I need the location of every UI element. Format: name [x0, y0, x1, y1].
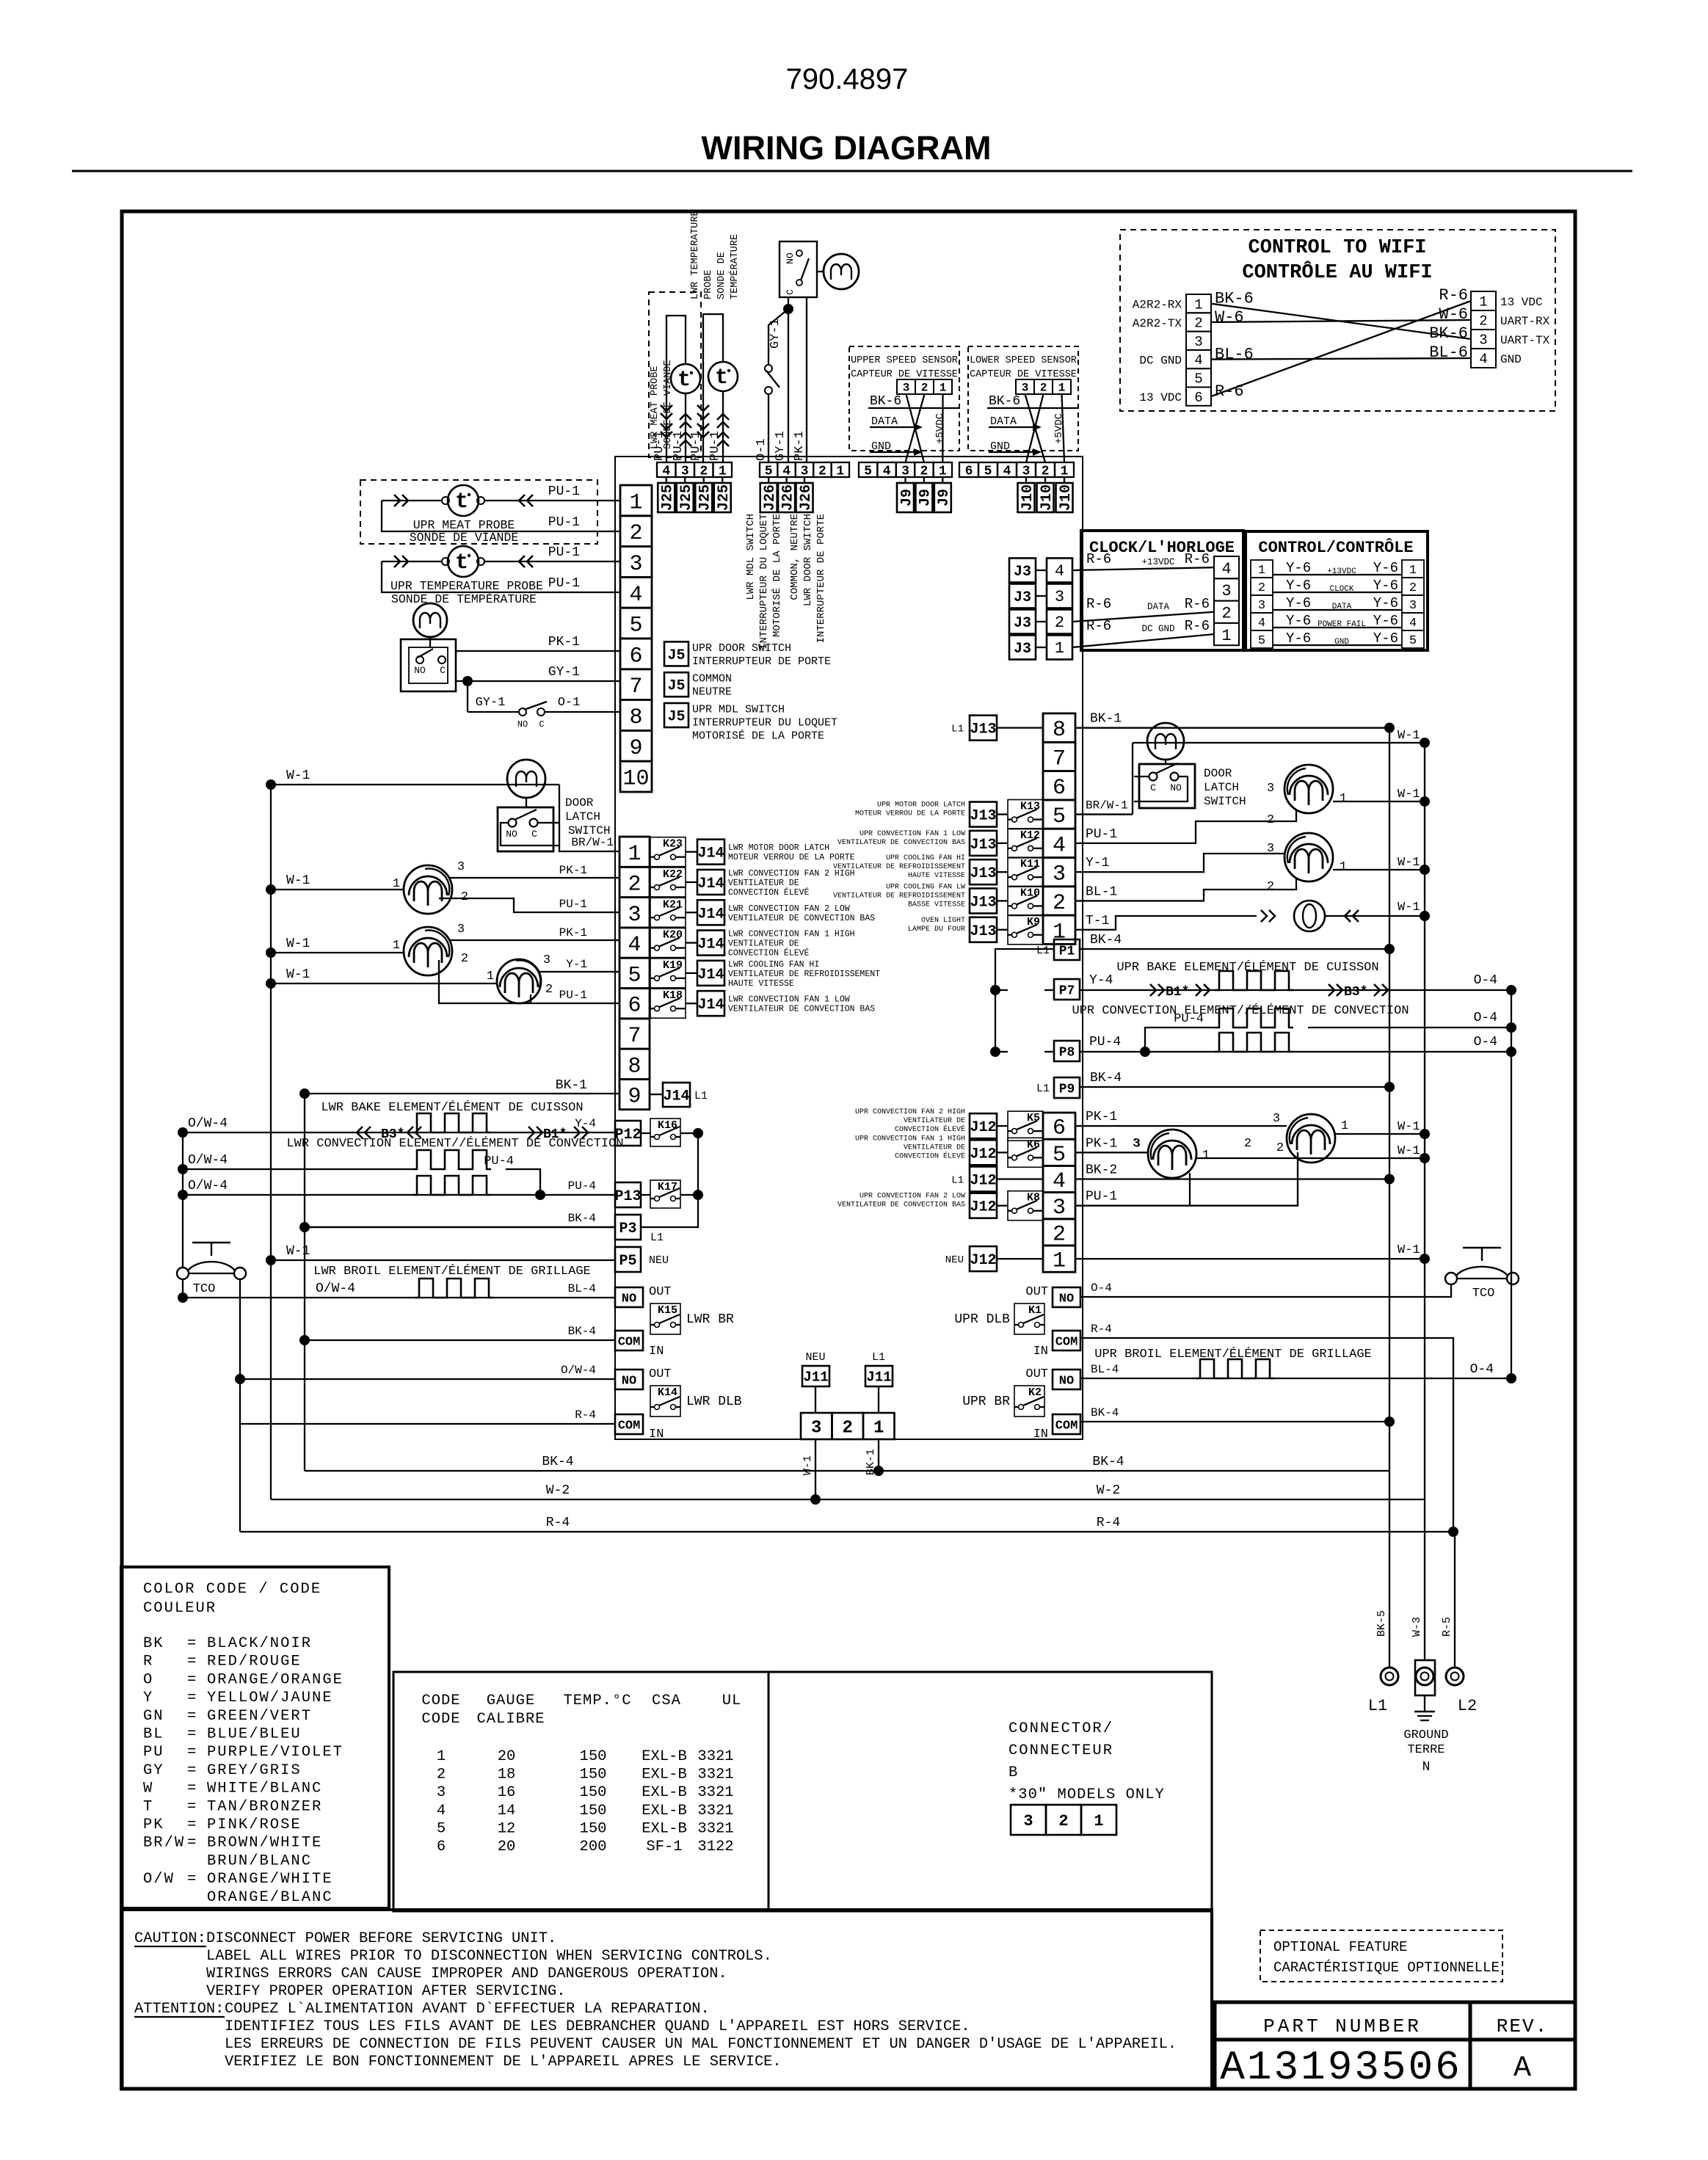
svg-text:PU-1: PU-1 [689, 431, 703, 461]
oven light [1075, 916, 1257, 930]
svg-text:Y-6: Y-6 [1286, 595, 1311, 611]
svg-text:O/W-4: O/W-4 [188, 1179, 228, 1193]
svg-text:K14: K14 [658, 1386, 677, 1399]
svg-text:1: 1 [628, 842, 641, 867]
svg-text:Y-1: Y-1 [566, 958, 587, 971]
svg-text:N: N [1422, 1760, 1431, 1775]
svg-text:BL-6: BL-6 [1215, 346, 1254, 364]
svg-text:UPR CONVECTION ELEMENT//ÉLÉMEN: UPR CONVECTION ELEMENT//ÉLÉMENT DE CONVE… [1072, 1003, 1409, 1018]
wire BR/W-1 J13 row5 to latch [1075, 813, 1133, 815]
svg-text:COM: COM [618, 1419, 641, 1433]
J14 row 9 L1 [663, 1083, 690, 1107]
svg-text:MOTORISÉ DE LA PORTE: MOTORISÉ DE LA PORTE [692, 730, 824, 743]
svg-text:J10: J10 [1058, 484, 1075, 511]
wifi crossover wires [1211, 304, 1471, 339]
O-1 door switch contacts [765, 365, 772, 372]
svg-text:4: 4 [629, 583, 642, 608]
svg-text:1: 1 [1194, 297, 1202, 313]
connector strip J26 pins 5-1 [760, 462, 777, 477]
svg-text:K17: K17 [658, 1181, 677, 1193]
svg-text:PU-1: PU-1 [559, 989, 587, 1002]
svg-text:MOTEUR VERROU DE LA PORTE: MOTEUR VERROU DE LA PORTE [728, 853, 855, 862]
svg-text:PART NUMBER: PART NUMBER [1263, 2015, 1422, 2037]
svg-text:3: 3 [801, 464, 809, 479]
svg-text:BR/W-1: BR/W-1 [1086, 799, 1128, 812]
svg-text:4: 4 [437, 1803, 446, 1819]
svg-text:16: 16 [498, 1784, 516, 1801]
svg-text:PU-1: PU-1 [559, 898, 587, 911]
svg-text:BK-4: BK-4 [542, 1455, 573, 1469]
svg-text:LOWER SPEED SENSOR: LOWER SPEED SENSOR [970, 355, 1077, 366]
svg-text:4: 4 [628, 933, 641, 958]
svg-text:PU-4: PU-4 [1174, 1012, 1204, 1026]
svg-text:DC GND: DC GND [1139, 354, 1182, 368]
svg-text:R-6: R-6 [1086, 618, 1111, 634]
svg-text:6: 6 [437, 1839, 446, 1855]
wire BL-4 NO2 broil element O-4 [1080, 1378, 1511, 1379]
svg-text:TCO: TCO [193, 1282, 216, 1296]
svg-text:3: 3 [1194, 334, 1202, 350]
svg-text:2: 2 [461, 952, 468, 966]
CONTROL/CONTRÔLE box [1246, 531, 1428, 650]
svg-text:R: R [143, 1654, 153, 1670]
svg-text:5: 5 [1194, 371, 1202, 388]
svg-text:OUT: OUT [649, 1285, 672, 1299]
svg-text:O/W-4: O/W-4 [316, 1281, 355, 1296]
wire BK-1 row9 [305, 1093, 619, 1094]
svg-text:A2R2-RX: A2R2-RX [1133, 299, 1182, 312]
svg-text:t: t [715, 366, 728, 390]
svg-text:TEMP.°C: TEMP.°C [563, 1692, 631, 1709]
svg-text:PU-1: PU-1 [548, 545, 580, 560]
svg-text:NO: NO [517, 719, 528, 730]
svg-text:DATA: DATA [871, 415, 898, 428]
svg-text:LWR CONVECTION ELEMENT//ÉLÉMEN: LWR CONVECTION ELEMENT//ÉLÉMENT DE CONVE… [286, 1136, 623, 1151]
svg-text:2: 2 [461, 890, 468, 904]
svg-text:GND: GND [990, 440, 1010, 453]
svg-text:5: 5 [765, 464, 773, 479]
svg-text:4: 4 [782, 464, 791, 479]
right vertical W bus [1424, 743, 1425, 1499]
svg-text:LWR CONVECTION FAN 2 HIGH: LWR CONVECTION FAN 2 HIGH [728, 869, 855, 879]
svg-text:1: 1 [1061, 464, 1069, 479]
svg-text:=: = [187, 1654, 196, 1670]
svg-text:2: 2 [1040, 382, 1047, 395]
J12 row 1 NEU [970, 1246, 997, 1271]
svg-text:ATTENTION:: ATTENTION: [134, 2001, 224, 2018]
wire BK-4 COM [305, 1339, 615, 1341]
svg-text:VENTILATEUR DE CONVECTION BAS: VENTILATEUR DE CONVECTION BAS [728, 1005, 875, 1014]
svg-text:CONTROL/CONTRÔLE: CONTROL/CONTRÔLE [1258, 538, 1413, 557]
connector J10 pin headers [1025, 477, 1027, 483]
svg-text:5: 5 [629, 614, 642, 639]
svg-text:3: 3 [1053, 1196, 1066, 1221]
wire gauge table box [393, 1672, 768, 1911]
svg-text:CAUTION:: CAUTION: [134, 1930, 206, 1947]
svg-text:3321: 3321 [697, 1820, 733, 1837]
connector B pins 3-1 [1011, 1805, 1046, 1835]
svg-text:PU-1: PU-1 [1086, 827, 1117, 842]
J12 row 4 L1 [970, 1167, 997, 1192]
svg-text:150: 150 [580, 1784, 607, 1801]
svg-text:4: 4 [1479, 352, 1487, 368]
J13 connector row with relay K12 [970, 831, 997, 856]
svg-text:INTERRUPTEUR DE PORTE: INTERRUPTEUR DE PORTE [692, 655, 831, 668]
J14 connector row with relay K19 [650, 959, 686, 988]
title rule [72, 170, 1632, 172]
wire motor7 pin3 Y-1 row5 [538, 971, 619, 972]
wire P9 BK-4 [1080, 1086, 1389, 1088]
svg-text:1: 1 [629, 490, 642, 515]
wire BK-4 COM2 [1080, 1421, 1389, 1422]
svg-text:POWER FAIL: POWER FAIL [1318, 620, 1366, 629]
wire motor5 pin3 to pin2 PK-1 [449, 877, 619, 879]
svg-text:4: 4 [1194, 352, 1202, 368]
svg-text:BR/W-1: BR/W-1 [571, 836, 614, 849]
svg-text:J3: J3 [1014, 564, 1031, 581]
svg-text:TCO: TCO [1472, 1287, 1495, 1301]
svg-text:BLACK/NOIR: BLACK/NOIR [207, 1635, 312, 1652]
svg-text:IN: IN [1033, 1428, 1048, 1441]
svg-text:1: 1 [1058, 382, 1066, 395]
svg-text:NEU: NEU [805, 1351, 825, 1364]
svg-text:COMMON, NEUTRE: COMMON, NEUTRE [789, 514, 801, 600]
svg-text:COUPEZ L`ALIMENTATION AVANT D`: COUPEZ L`ALIMENTATION AVANT D`EFFECTUER … [225, 2001, 710, 2018]
svg-text:NO: NO [414, 665, 426, 676]
svg-text:=: = [187, 1635, 196, 1652]
svg-text:PK-1: PK-1 [548, 635, 580, 650]
svg-text:J11: J11 [803, 1370, 828, 1386]
J13 connector row with relay K9 [970, 917, 997, 942]
svg-text:LABEL ALL WIRES PRIOR TO DISCO: LABEL ALL WIRES PRIOR TO DISCONNECTION W… [206, 1948, 772, 1965]
svg-text:O/W-4: O/W-4 [188, 1153, 228, 1168]
svg-text:C: C [440, 665, 446, 676]
svg-text:OUT: OUT [1025, 1285, 1048, 1299]
svg-text:3: 3 [1053, 862, 1066, 887]
svg-text:CONTRÔLE AU WIFI: CONTRÔLE AU WIFI [1242, 260, 1432, 284]
svg-text:R-6: R-6 [1185, 618, 1210, 634]
svg-text:EXL-B: EXL-B [642, 1767, 687, 1783]
svg-text:BK-4: BK-4 [1092, 1455, 1124, 1469]
svg-text:=: = [187, 1871, 196, 1888]
svg-text:=: = [187, 1817, 196, 1833]
svg-text:1: 1 [940, 382, 947, 395]
svg-text:J12: J12 [970, 1199, 996, 1216]
wire O-1 to J26-5 [768, 394, 769, 462]
svg-text:K18: K18 [663, 989, 683, 1002]
svg-text:J14: J14 [697, 967, 724, 983]
wire pin2 PU-1 [382, 501, 620, 531]
wire W-1 motor5 pin1 [271, 889, 404, 890]
svg-text:1: 1 [1055, 639, 1064, 658]
relay K14 LWR DLB [650, 1386, 680, 1417]
wire O/W-4 convection element lower PU-4 to P13 [183, 1194, 615, 1196]
optional feature dashed box [1260, 1930, 1502, 1982]
left O/W rail [182, 1132, 183, 1268]
wire BK-1 from 1 to BK-4 bus [878, 1439, 879, 1471]
svg-text:WIRINGS ERRORS CAN CAUSE IMPRO: WIRINGS ERRORS CAN CAUSE IMPROPER AND DA… [206, 1966, 727, 1982]
svg-text:3321: 3321 [697, 1803, 733, 1819]
svg-text:3: 3 [903, 382, 910, 395]
connector P12 [615, 1121, 641, 1146]
svg-text:5: 5 [864, 464, 872, 479]
wire BK-2 row4 [1075, 1178, 1389, 1179]
svg-text:4: 4 [1003, 464, 1011, 479]
svg-text:J14: J14 [697, 876, 724, 892]
wire GY-1 branch to O-1 switch [768, 309, 788, 365]
svg-text:4: 4 [1409, 617, 1417, 630]
wire pin4 PU-1 [382, 561, 620, 592]
svg-text:BK-2: BK-2 [1086, 1163, 1117, 1178]
svg-text:COM: COM [618, 1335, 641, 1349]
svg-text:O/W-4: O/W-4 [188, 1116, 228, 1131]
connector P9 [1054, 1077, 1080, 1098]
LOWER SPEED SENSOR dashed box [968, 346, 1078, 451]
svg-text:NO: NO [622, 1292, 636, 1306]
wire O/W-4 bake element B3*-B1* Y-4 to P12 [183, 1132, 615, 1133]
svg-text:3: 3 [1409, 599, 1417, 613]
UPR door latch switch box [1139, 764, 1195, 808]
svg-text:GND: GND [871, 440, 891, 453]
svg-text:1: 1 [1409, 564, 1417, 578]
svg-text:CONTROL TO WIFI: CONTROL TO WIFI [1248, 237, 1426, 259]
svg-text:=: = [187, 1781, 196, 1797]
svg-text:150: 150 [580, 1748, 607, 1765]
svg-text:6: 6 [1053, 1116, 1066, 1141]
relay K2 UPR BR [1014, 1386, 1044, 1417]
wire W-1 through solenoid [1133, 742, 1425, 743]
svg-text:CONVECTION ÉLEVÉ: CONVECTION ÉLEVÉ [728, 948, 810, 959]
svg-text:O-4: O-4 [1474, 1011, 1497, 1025]
svg-text:BR/W: BR/W [143, 1835, 185, 1852]
svg-text:P7: P7 [1059, 983, 1075, 998]
svg-text:LWR TEMPERATURE: LWR TEMPERATURE [690, 210, 701, 299]
svg-text:J25: J25 [697, 484, 714, 511]
svg-text:L2: L2 [1458, 1697, 1477, 1715]
svg-text:R-4: R-4 [575, 1408, 596, 1422]
svg-text:2: 2 [1053, 891, 1066, 916]
svg-text:Y-6: Y-6 [1373, 613, 1398, 629]
svg-text:LWR COOLING FAN HI: LWR COOLING FAN HI [728, 960, 819, 970]
svg-text:LATCH: LATCH [1204, 781, 1239, 794]
svg-text:O/W: O/W [143, 1871, 175, 1888]
svg-text:1: 1 [487, 970, 494, 983]
svg-text:5: 5 [1409, 634, 1417, 648]
svg-text:W-1: W-1 [286, 1244, 310, 1259]
svg-text:GY-1: GY-1 [548, 665, 580, 680]
svg-text:=: = [187, 1744, 196, 1761]
svg-text:20: 20 [498, 1748, 516, 1765]
svg-text:2: 2 [437, 1767, 446, 1783]
svg-text:3: 3 [1055, 588, 1064, 606]
svg-text:BK-6: BK-6 [870, 394, 901, 409]
svg-text:SONDE DE TEMPÉRATURE: SONDE DE TEMPÉRATURE [391, 592, 537, 606]
UPPER SPEED SENSOR dashed box [849, 346, 959, 451]
svg-text:10: 10 [622, 767, 649, 792]
control board outline [615, 457, 1083, 1439]
connector P7 [1054, 979, 1080, 1000]
wire motor pin1 W-1 [1333, 801, 1425, 802]
svg-text:SONDE DE: SONDE DE [716, 252, 727, 299]
relay output terminal COM (LWR DLB) [615, 1414, 643, 1434]
svg-text:CODE: CODE [421, 1692, 460, 1709]
svg-text:t: t [455, 490, 468, 514]
svg-text:UPR TEMPERATURE PROBE: UPR TEMPERATURE PROBE [390, 579, 543, 593]
UPR door switch box [401, 639, 456, 691]
svg-text:K12: K12 [1020, 829, 1040, 842]
svg-text:3: 3 [1221, 582, 1231, 600]
svg-text:1: 1 [1221, 627, 1231, 645]
relay K1 UPR DLB [1014, 1303, 1044, 1334]
svg-text:2: 2 [1479, 313, 1487, 330]
relay output terminal NO (UPR BR) [1053, 1370, 1080, 1389]
svg-text:NO: NO [622, 1374, 636, 1388]
svg-text:LATCH: LATCH [565, 810, 600, 823]
svg-text:IN: IN [1033, 1345, 1048, 1359]
svg-text:W-1: W-1 [1398, 729, 1420, 743]
svg-text:4: 4 [1221, 560, 1231, 578]
svg-text:UART-RX: UART-RX [1500, 315, 1550, 328]
svg-text:R-6: R-6 [1185, 596, 1210, 612]
svg-text:BLUE/BLEU: BLUE/BLEU [207, 1726, 302, 1743]
svg-text:8: 8 [1053, 718, 1066, 743]
wire motor pin1 W-1 [1333, 869, 1425, 870]
svg-text:DATA: DATA [1332, 603, 1352, 611]
svg-text:2: 2 [818, 464, 826, 479]
svg-text:W-1: W-1 [286, 937, 310, 951]
wire temp probe to J25-1 [722, 391, 724, 462]
svg-text:20: 20 [498, 1839, 516, 1855]
relay output terminal NO (UPR DLB) [1053, 1287, 1080, 1307]
svg-text:3: 3 [437, 1784, 446, 1801]
svg-text:LAMPE DU FOUR: LAMPE DU FOUR [908, 926, 965, 934]
J13 connector row with relay K11 [970, 859, 997, 884]
svg-text:J13: J13 [970, 865, 996, 882]
svg-text:O-1: O-1 [558, 696, 581, 710]
svg-text:BK-5: BK-5 [1376, 1610, 1388, 1637]
relay K17 [650, 1180, 680, 1208]
LWR door latch solenoid [507, 760, 545, 798]
relay output terminal COM (LWR BR) [615, 1331, 643, 1350]
svg-text:1: 1 [1258, 564, 1265, 578]
svg-text:J14: J14 [697, 846, 724, 862]
svg-text:Y-4: Y-4 [575, 1117, 596, 1130]
wire PK-1 to pin 6 [456, 650, 620, 652]
LWR motorized door latch switch box [779, 241, 817, 297]
wire Y-4 P7 B1* bake element B3* O-4 [1080, 989, 1511, 991]
svg-text:R-6: R-6 [1086, 596, 1111, 612]
svg-text:B: B [1009, 1764, 1017, 1781]
svg-text:6: 6 [965, 464, 973, 479]
svg-text:PU-1: PU-1 [672, 431, 686, 461]
svg-text:LWR CONVECTION FAN 2 LOW: LWR CONVECTION FAN 2 LOW [728, 904, 850, 914]
svg-text:UPR CONVECTION FAN 2 HIGH: UPR CONVECTION FAN 2 HIGH [855, 1108, 965, 1116]
svg-text:K1: K1 [1028, 1304, 1042, 1317]
svg-text:EXL-B: EXL-B [642, 1803, 687, 1819]
svg-text:2: 2 [1042, 464, 1050, 479]
svg-text:=: = [187, 1690, 196, 1706]
svg-text:GAUGE: GAUGE [487, 1692, 536, 1709]
svg-text:W-1: W-1 [1398, 1243, 1420, 1257]
J3 connector boxes and pins [1009, 559, 1036, 583]
svg-text:4: 4 [883, 464, 891, 479]
svg-text:4: 4 [1053, 1169, 1066, 1194]
LWR temperature probe symbol [708, 362, 738, 391]
svg-text:VENTILATEUR DE CONVECTION BAS: VENTILATEUR DE CONVECTION BAS [837, 839, 965, 847]
svg-text:O-1: O-1 [755, 438, 768, 461]
svg-text:BK-4: BK-4 [1090, 1071, 1122, 1086]
wire motor6 pin3 PK-1 row4 [449, 939, 619, 941]
svg-text:12: 12 [498, 1820, 516, 1837]
svg-text:5: 5 [628, 963, 641, 988]
svg-text:TAN/BRONZER: TAN/BRONZER [207, 1798, 322, 1815]
svg-text:SF-1: SF-1 [646, 1839, 682, 1855]
svg-text:WIRING DIAGRAM: WIRING DIAGRAM [702, 129, 992, 167]
UPPER speed sensor crossing wires [906, 394, 924, 462]
svg-text:3321: 3321 [697, 1748, 733, 1765]
J13 connector row with relay K10 [970, 888, 997, 913]
svg-text:2: 2 [1055, 614, 1064, 632]
svg-text:NEU: NEU [945, 1254, 964, 1266]
svg-text:J3: J3 [1014, 589, 1031, 606]
terminal L2 [1446, 1668, 1464, 1685]
svg-text:L1: L1 [1368, 1697, 1387, 1715]
LWR door latch solenoid [824, 254, 859, 289]
svg-text:ORANGE/BLANC: ORANGE/BLANC [207, 1889, 333, 1906]
svg-text:J25: J25 [678, 484, 695, 511]
svg-text:UPR DLB: UPR DLB [954, 1312, 1010, 1327]
J14 connector row with relay K20 [650, 928, 686, 958]
svg-text:O/W-4: O/W-4 [561, 1364, 596, 1377]
svg-text:2: 2 [1244, 1137, 1251, 1151]
connector P3 [615, 1215, 641, 1240]
svg-text:2: 2 [545, 983, 553, 997]
svg-text:W-1: W-1 [802, 1455, 814, 1475]
ground terminal [1415, 1660, 1435, 1695]
svg-text:4: 4 [1053, 833, 1066, 858]
svg-text:Y-6: Y-6 [1286, 560, 1311, 576]
svg-text:EXL-B: EXL-B [642, 1820, 687, 1837]
svg-text:2: 2 [699, 464, 708, 479]
UPR convection fan motor 2 [1287, 1114, 1335, 1163]
svg-text:NO: NO [1059, 1374, 1074, 1388]
UPR temperature probe symbol [448, 546, 479, 577]
control right pins 1-5 [1402, 560, 1424, 578]
svg-text:PK-1: PK-1 [1086, 1110, 1117, 1124]
wire latch box to J26-3 (PK-1) [806, 297, 807, 462]
svg-text:J13: J13 [970, 894, 996, 911]
svg-text:BK-4: BK-4 [568, 1325, 596, 1338]
svg-text:6: 6 [629, 644, 642, 669]
svg-text:200: 200 [580, 1839, 607, 1855]
svg-text:W: W [143, 1781, 153, 1797]
svg-text:CAPTEUR DE VITESSE: CAPTEUR DE VITESSE [851, 369, 958, 380]
svg-text:J3: J3 [1014, 615, 1031, 632]
left connector column pins 1-10 [620, 485, 652, 516]
svg-text:J14: J14 [697, 906, 724, 923]
svg-text:2: 2 [1194, 316, 1202, 332]
svg-text:13 VDC: 13 VDC [1500, 296, 1543, 309]
svg-text:K19: K19 [663, 959, 683, 972]
svg-text:NO: NO [1059, 1292, 1074, 1306]
svg-text:UPR MDL SWITCH: UPR MDL SWITCH [692, 704, 785, 716]
svg-text:VENTILATEUR DE REFROIDISSEMENT: VENTILATEUR DE REFROIDISSEMENT [728, 970, 880, 979]
svg-text:W-6: W-6 [1215, 308, 1244, 327]
svg-text:K23: K23 [663, 838, 683, 851]
svg-text:+13VDC: +13VDC [1141, 557, 1174, 567]
svg-text:=: = [187, 1726, 196, 1743]
svg-text:3: 3 [1258, 599, 1265, 613]
